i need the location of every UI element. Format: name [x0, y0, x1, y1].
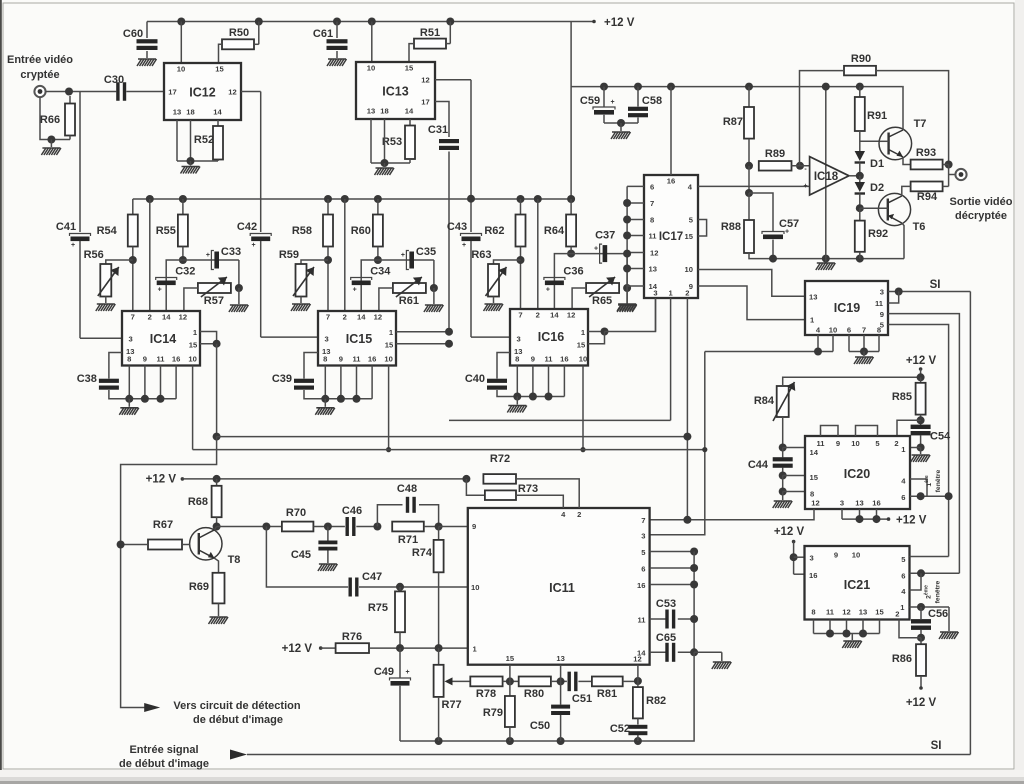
- wire R70 to C46: [313, 526, 345, 528]
- wire IC17 pin2 down to bus B and IC11 pin7: [686, 298, 688, 520]
- transistor T8: [190, 528, 222, 560]
- wire ground column to bottom bus: [400, 652, 694, 741]
- svg-text:R75: R75: [368, 602, 388, 614]
- node R82 top dot: [634, 677, 642, 685]
- svg-text:IC14: IC14: [150, 332, 176, 346]
- wire T6 emitter to R94: [902, 186, 911, 196]
- svg-text:+: +: [610, 99, 614, 106]
- node bus B left dot: [213, 433, 221, 441]
- wire R87 to R89 node: [748, 139, 750, 166]
- svg-text:7: 7: [641, 516, 645, 525]
- wire R91 to D1: [859, 131, 861, 151]
- svg-text:11: 11: [352, 355, 361, 364]
- resistor R67: [148, 540, 182, 550]
- svg-text:R80: R80: [524, 688, 544, 700]
- trimmer R59: [301, 260, 328, 264]
- wire C47 to R75 and IC11 pin10: [359, 586, 468, 588]
- wire strobe column down to IC11 pin3: [650, 352, 705, 535]
- resistor R60: [374, 195, 382, 203]
- wire IC18 output: [849, 175, 860, 177]
- svg-text:C33: C33: [221, 246, 241, 258]
- jumper IC20 pin11 to pin9: [821, 426, 839, 437]
- wire rail to pin2: [146, 195, 154, 203]
- svg-text:11: 11: [156, 355, 165, 364]
- ground under C45: [327, 551, 329, 564]
- svg-text:IC20: IC20: [844, 467, 870, 481]
- node IC16 pin10 bus C dot: [580, 447, 585, 452]
- svg-text:C45: C45: [291, 549, 311, 561]
- wire C47 branch down: [266, 527, 348, 588]
- bus B from IC14 output to IC17 pin2 column: [217, 436, 688, 438]
- node C54 bottom dot: [917, 444, 925, 452]
- svg-text:de début d'image: de début d'image: [119, 758, 209, 770]
- svg-text:2: 2: [577, 510, 581, 519]
- wire IC20 pin6 to window line: [910, 495, 949, 497]
- svg-text:C46: C46: [342, 505, 362, 517]
- svg-text:de début d'image: de début d'image: [193, 714, 283, 726]
- wire C30 to IC12 pin17: [126, 91, 164, 93]
- svg-text:R57: R57: [204, 295, 224, 307]
- ground under C54: [920, 448, 922, 455]
- svg-text:+12 V: +12 V: [774, 526, 805, 538]
- svg-text:+12 V: +12 V: [906, 355, 937, 367]
- node R71 right dot: [435, 523, 443, 531]
- svg-text:10: 10: [579, 355, 587, 364]
- diode D2: [859, 176, 861, 182]
- svg-text:8: 8: [650, 216, 654, 225]
- svg-text:R82: R82: [646, 695, 666, 707]
- node R93 right dot: [945, 161, 953, 169]
- wire C40 to pins 8 9 11 16: [497, 390, 564, 397]
- wire T7 collector to +12V rail: [902, 87, 904, 130]
- wire bus to IC17 pin14: [627, 285, 644, 287]
- svg-text:fenêtre: fenêtre: [935, 469, 942, 492]
- ground under R69: [218, 603, 220, 616]
- capacitor C49: [399, 648, 401, 677]
- trimmer R57: [198, 283, 231, 293]
- svg-text:R51: R51: [420, 27, 440, 39]
- node input dot: [65, 88, 73, 96]
- resistor R64: [567, 195, 575, 203]
- svg-text:2: 2: [895, 610, 899, 619]
- capacitor C32: [166, 260, 183, 311]
- resistor R54: [132, 199, 134, 215]
- wire IC21 bottom pins ground: [813, 620, 815, 634]
- svg-text:fenêtre: fenêtre: [935, 580, 942, 603]
- svg-text:C58: C58: [642, 95, 662, 107]
- svg-text:15: 15: [577, 341, 586, 350]
- svg-text:T7: T7: [914, 118, 927, 130]
- ground under IC15: [324, 399, 326, 407]
- svg-text:+: +: [803, 183, 807, 190]
- capacitor C40: [497, 353, 510, 379]
- svg-text:14: 14: [550, 311, 559, 320]
- resistor R90: [844, 66, 876, 76]
- svg-text:IC16: IC16: [538, 330, 564, 344]
- +12V stub under R86: [920, 676, 922, 688]
- coupling line C43 from IC13 pin12 to IC16 pin3: [470, 80, 472, 232]
- svg-text:12: 12: [811, 499, 819, 508]
- capacitor C35: [378, 259, 434, 261]
- svg-text:R77: R77: [442, 699, 462, 711]
- wire R65 left to pin12: [572, 288, 586, 309]
- svg-text:7: 7: [518, 311, 522, 320]
- capacitor C48 parallel: [377, 505, 402, 527]
- node R92 bottom dot: [856, 255, 864, 263]
- coupling line C42 from IC12 pin12 to IC15 pin3: [260, 92, 262, 233]
- wire IC19 pin3 SI line: [888, 291, 970, 293]
- svg-text:R78: R78: [476, 688, 496, 700]
- svg-text:14: 14: [810, 448, 819, 457]
- svg-text:8: 8: [810, 490, 814, 499]
- resistor R75: [399, 587, 401, 591]
- capacitor C46: [346, 517, 349, 536]
- wire IC17 pin10 to IC19 pin13: [698, 270, 805, 297]
- resistor R82: [637, 681, 639, 687]
- svg-text:IC21: IC21: [844, 578, 870, 592]
- svg-text:8: 8: [323, 355, 327, 364]
- svg-text:6: 6: [650, 183, 654, 192]
- wire IC11 pin5 to ground column: [650, 551, 695, 553]
- svg-text:14: 14: [357, 313, 366, 322]
- input connector: Entree video cryptee: [34, 86, 45, 97]
- svg-text:+12 V: +12 V: [146, 474, 177, 486]
- svg-text:R69: R69: [189, 581, 209, 593]
- output connector Sortie video: [955, 169, 966, 180]
- capacitor C53: [650, 618, 666, 620]
- resistor R66: [69, 96, 71, 104]
- svg-text:R64: R64: [544, 225, 565, 237]
- svg-text:+: +: [405, 669, 409, 676]
- svg-text:R81: R81: [597, 688, 617, 700]
- wire bus to IC17 pin12: [627, 252, 644, 254]
- svg-text:13: 13: [809, 293, 817, 302]
- wire C49 down to bottom bus: [399, 686, 401, 741]
- node bus B right dot: [683, 433, 691, 441]
- svg-text:2: 2: [685, 289, 689, 298]
- capacitor C44: [773, 457, 793, 461]
- wire C42 to IC15 pin3: [261, 336, 318, 338]
- svg-text:Entrée vidéo: Entrée vidéo: [7, 54, 73, 66]
- jumper IC20 pin10 to pin5: [856, 426, 878, 437]
- svg-text:R58: R58: [292, 225, 312, 237]
- svg-text:C59: C59: [580, 95, 600, 107]
- svg-text:C50: C50: [530, 720, 550, 732]
- node R72 left dot: [462, 475, 470, 483]
- wire R72 right to IC11 pin2: [516, 479, 579, 508]
- ground under C58 C59: [620, 123, 622, 131]
- svg-text:+: +: [158, 287, 162, 294]
- node IC19 gnd dot: [860, 348, 868, 356]
- wire SI vertical right edge: [969, 292, 971, 755]
- svg-text:10: 10: [852, 551, 860, 560]
- svg-text:C42: C42: [237, 221, 257, 233]
- node R77 top dot: [435, 644, 443, 652]
- svg-text:7: 7: [862, 326, 866, 335]
- svg-text:2: 2: [343, 313, 347, 322]
- svg-text:11: 11: [544, 355, 553, 364]
- svg-text:14: 14: [405, 107, 414, 116]
- svg-text:11: 11: [649, 232, 658, 241]
- left scan edge: [0, 0, 2, 784]
- capacitor C54: [911, 425, 931, 429]
- op IC11 box: [468, 508, 650, 665]
- svg-text:Vers circuit de détection: Vers circuit de détection: [173, 700, 300, 712]
- svg-text:3: 3: [517, 335, 521, 344]
- wire IC16 pin1 output: [588, 331, 605, 333]
- svg-text:R79: R79: [483, 707, 503, 719]
- svg-text:R71: R71: [398, 534, 418, 546]
- op IC21 box: [805, 546, 910, 620]
- svg-text:R91: R91: [867, 110, 887, 122]
- svg-text:15: 15: [685, 232, 694, 241]
- resistor R74: [438, 527, 440, 540]
- wire IC21 pin6 window2: [910, 572, 960, 574]
- wire C46 to R71: [356, 526, 377, 528]
- node strobe bus C junction: [702, 447, 707, 452]
- ground under IC17 input bus: [626, 288, 628, 303]
- svg-text:15: 15: [405, 64, 414, 73]
- svg-text:+: +: [251, 242, 255, 249]
- node C58 C59 ground dot: [604, 122, 638, 124]
- wire bus to IC17 pin7: [627, 202, 644, 204]
- capacitor C57: [762, 232, 784, 235]
- svg-text:16: 16: [368, 355, 376, 364]
- resistor R69: [213, 573, 225, 604]
- ground under R57: [238, 288, 240, 304]
- svg-text:C39: C39: [272, 373, 292, 385]
- capacitor C65: [650, 651, 666, 653]
- svg-text:12: 12: [842, 608, 850, 617]
- svg-text:R92: R92: [868, 228, 888, 240]
- resistor R70: [282, 522, 314, 532]
- svg-text:14: 14: [162, 313, 171, 322]
- wire IC16 pin15 up to output: [588, 332, 605, 344]
- svg-text:IC11: IC11: [549, 581, 575, 595]
- svg-text:D2: D2: [870, 182, 884, 194]
- wire IC17 pin16 to +12V rail: [667, 83, 675, 91]
- svg-text:C48: C48: [397, 483, 417, 495]
- node R88 top dot: [745, 189, 753, 197]
- node R55 bottom dot: [179, 256, 187, 264]
- wire T7 base: [860, 140, 880, 142]
- node C45 dot: [324, 523, 332, 531]
- resistor R92: [859, 208, 861, 220]
- svg-text:C44: C44: [748, 459, 769, 471]
- capacitor C31: [439, 139, 459, 143]
- wire R51 left to IC13 pin15: [409, 44, 414, 62]
- wire connector to ground leg: [40, 97, 70, 139]
- node IC21 pin6 dot: [917, 569, 925, 577]
- svg-text:16: 16: [172, 355, 180, 364]
- wire IC11 pin15 down: [509, 665, 511, 682]
- ground stub right of C65: [694, 651, 722, 653]
- wire R76 to IC11 pin1: [369, 647, 468, 649]
- wire IC11 pin12 down: [637, 665, 639, 681]
- svg-text:Entrée signal: Entrée signal: [129, 744, 198, 756]
- svg-text:R76: R76: [342, 631, 362, 643]
- ground under IC12: [190, 161, 192, 166]
- capacitor C30: [116, 82, 119, 101]
- node IC14 gnd dots: [125, 395, 133, 403]
- node R54 bottom dot: [129, 256, 137, 264]
- svg-text:C43: C43: [447, 221, 467, 233]
- svg-text:17: 17: [168, 88, 176, 97]
- node C43 rail dot: [467, 195, 475, 203]
- wire C41 to IC14 pin3: [80, 337, 122, 339]
- svg-text:R87: R87: [723, 116, 743, 128]
- svg-text:2: 2: [148, 313, 152, 322]
- capacitor C51: [568, 672, 571, 692]
- svg-text:C37: C37: [595, 230, 615, 242]
- node R64 bottom dot: [567, 250, 575, 258]
- svg-text:C57: C57: [779, 218, 799, 230]
- svg-text:T6: T6: [913, 221, 926, 233]
- svg-text:SI: SI: [931, 740, 942, 752]
- svg-text:R50: R50: [229, 27, 249, 39]
- wire R54 bottom to pin7: [132, 247, 134, 312]
- node R66 bottom dot: [47, 136, 55, 144]
- capacitor C36: [554, 254, 571, 309]
- svg-text:9: 9: [143, 355, 147, 364]
- wire bus to IC17 pin11: [627, 235, 644, 237]
- node pin15 column dot: [503, 680, 519, 682]
- resistor R81: [578, 680, 592, 682]
- wire output connector column: [948, 165, 950, 187]
- op IC14 box: [122, 311, 200, 366]
- svg-text:10: 10: [177, 65, 185, 74]
- svg-text:+12 V: +12 V: [906, 697, 937, 709]
- svg-text:9: 9: [834, 551, 838, 560]
- node R58 bottom dot: [324, 256, 332, 264]
- svg-text:IC15: IC15: [346, 332, 372, 346]
- svg-text:17: 17: [421, 98, 429, 107]
- svg-text:9: 9: [472, 522, 476, 531]
- node C35 right dot: [433, 260, 435, 288]
- node C47 branch dot: [262, 523, 270, 531]
- svg-text:+: +: [594, 246, 598, 253]
- resistor R51: [414, 39, 446, 49]
- svg-text:12: 12: [567, 311, 575, 320]
- wire R84 top to +12V node: [783, 377, 921, 386]
- wire R84 bottom to IC20 pin14: [782, 417, 784, 448]
- node IC11 pin5 dot: [690, 548, 698, 556]
- svg-text:R68: R68: [188, 496, 208, 508]
- capacitor C60: [146, 22, 148, 39]
- svg-text:R86: R86: [892, 653, 912, 665]
- wire R62 bottom to pin7: [520, 247, 522, 310]
- wire IC12 pins13,18 to ground node: [176, 120, 178, 161]
- wire IC11 pin16: [650, 584, 695, 586]
- resistor R50: [222, 39, 254, 49]
- resistor R68: [216, 479, 218, 486]
- svg-text:R85: R85: [892, 391, 912, 403]
- svg-text:C51: C51: [572, 693, 592, 705]
- wire R73 right to IC11 pin4: [516, 495, 563, 508]
- node IC20 pin6 dot: [917, 492, 925, 500]
- ground under IC13: [384, 163, 386, 167]
- svg-text:8: 8: [127, 355, 131, 364]
- bus A from C31 column to IC17 pin1: [449, 419, 671, 421]
- wire rail to pin2: [341, 195, 349, 203]
- node IC15 pin1 dot: [445, 328, 453, 336]
- svg-text:C38: C38: [77, 373, 97, 385]
- svg-text:R73: R73: [518, 483, 538, 495]
- resistor R76: [336, 643, 369, 653]
- op IC17 box: [644, 175, 698, 298]
- svg-text:R72: R72: [490, 453, 510, 465]
- resistor R72: [483, 474, 516, 484]
- node window column junction: [945, 492, 953, 500]
- svg-text:13: 13: [173, 108, 181, 117]
- capacitor C34: [361, 260, 378, 311]
- svg-text:R60: R60: [351, 225, 371, 237]
- resistor R93: [911, 160, 943, 170]
- svg-text:IC12: IC12: [189, 86, 215, 100]
- svg-text:3: 3: [653, 289, 657, 298]
- node IC20 pin16 dot: [873, 515, 881, 523]
- svg-text:R56: R56: [84, 249, 104, 261]
- svg-text:13: 13: [367, 107, 375, 116]
- node IC20 pin14 dot: [779, 444, 787, 452]
- resistor R85: [920, 377, 922, 383]
- node R71 left dot: [373, 523, 381, 531]
- svg-text:C49: C49: [374, 666, 394, 678]
- op IC16 box: [510, 309, 588, 366]
- wire R90 left to R89 node: [800, 71, 845, 166]
- svg-text:+: +: [401, 252, 405, 259]
- +12V top rail: [147, 21, 594, 23]
- ground under R63: [493, 297, 495, 304]
- svg-text:7: 7: [650, 199, 654, 208]
- wire T6 collector to ground line: [902, 223, 904, 259]
- wire IC17 pin4 to IC18 plus input: [698, 185, 810, 187]
- svg-text:10: 10: [367, 64, 375, 73]
- svg-text:R89: R89: [765, 148, 785, 160]
- wire IC15 pin1 to C31 column: [396, 331, 449, 333]
- trimmer R65: [586, 283, 619, 293]
- wire IC13 pin17 to C31: [435, 102, 449, 138]
- svg-text:R59: R59: [279, 249, 299, 261]
- node IC15 pin15 dot: [445, 340, 453, 348]
- op IC15 box: [318, 311, 396, 366]
- wire IC14 pin10 to bus C: [192, 366, 194, 450]
- svg-text:3: 3: [325, 335, 329, 344]
- capacitor C33: [183, 259, 239, 261]
- svg-text:6: 6: [901, 493, 905, 502]
- arrow vers circuit de detection: [144, 703, 160, 712]
- svg-text:C32: C32: [175, 266, 195, 278]
- node R62 bottom dot: [517, 256, 525, 264]
- wire T8 emitter to R69: [215, 558, 219, 573]
- wire rail to IC13 pin10: [368, 18, 376, 26]
- svg-text:9: 9: [880, 310, 884, 319]
- svg-text:C56: C56: [928, 608, 948, 620]
- svg-text:13: 13: [859, 608, 867, 617]
- wire IC16 pin10 to bus C: [582, 366, 584, 450]
- svg-text:16: 16: [637, 581, 645, 590]
- ground under C60: [146, 51, 148, 58]
- svg-text:R94: R94: [917, 191, 938, 203]
- svg-text:C34: C34: [370, 266, 391, 278]
- svg-text:14: 14: [213, 108, 222, 117]
- node detection line dot: [117, 541, 125, 549]
- wire IC17 pin3 to IC16 output: [655, 298, 657, 332]
- bus C from IC14 pin10 to IC19 strobe column: [193, 449, 705, 451]
- svg-text:13: 13: [556, 654, 564, 663]
- capacitor C38: [109, 353, 122, 379]
- diode D1: [855, 151, 865, 161]
